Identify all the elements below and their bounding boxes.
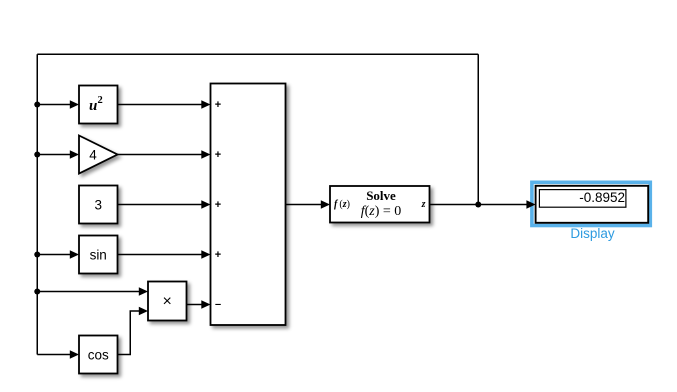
wire constant output to sum	[118, 204, 203, 206]
wire branch to u2	[37, 104, 70, 106]
block Product x	[148, 282, 187, 321]
svg-text:Display: Display	[570, 226, 615, 241]
wire branch to cos	[37, 354, 70, 356]
wire branch to product input 1	[37, 291, 139, 293]
block Gain 4	[79, 136, 118, 174]
arrowhead into display	[526, 200, 535, 208]
arrowhead into product input 1	[139, 287, 148, 295]
block Constant 3	[79, 186, 118, 224]
svg-text:-0.8952: -0.8952	[579, 190, 625, 205]
svg-text:cos: cos	[88, 348, 109, 363]
wire product output to sum	[187, 304, 203, 306]
svg-text:+: +	[215, 149, 221, 161]
wire u2 output to sum	[118, 104, 203, 106]
block Trigonometric Function cos	[79, 336, 118, 374]
wire solve output to display	[430, 204, 528, 206]
wire gain output to sum	[118, 154, 203, 156]
arrowhead into product input 2	[139, 307, 148, 315]
arrowhead into sum input 1	[201, 100, 210, 108]
svg-text:f (z): f (z)	[334, 199, 350, 210]
arrowhead into sin	[70, 250, 79, 258]
svg-text:3: 3	[94, 198, 102, 213]
junction node feedback takeoff	[475, 202, 481, 208]
junction node u2 branch	[34, 102, 40, 108]
arrowhead into solve	[321, 200, 330, 208]
arrowhead into u2	[70, 100, 79, 108]
svg-text:–: –	[215, 299, 221, 311]
wire feedback top	[37, 53, 478, 55]
wire feedback left vertical	[36, 54, 38, 354]
svg-text:z: z	[421, 199, 426, 210]
arrowhead into cos	[70, 350, 79, 358]
arrowhead into sum input 5	[201, 300, 210, 308]
arrowhead into gain	[70, 150, 79, 158]
arrowhead into sum input 4	[201, 250, 210, 258]
display block body	[536, 186, 649, 223]
wire sum output to solve	[286, 204, 322, 206]
block Math Function u^2	[79, 86, 118, 124]
svg-text:u: u	[89, 98, 97, 114]
svg-text:×: ×	[163, 293, 172, 310]
svg-text:2: 2	[98, 95, 103, 106]
wire sin output to sum	[118, 254, 203, 256]
wire cos output to product input 2	[118, 311, 140, 355]
svg-text:+: +	[215, 99, 221, 111]
arrowhead into sum input 2	[201, 150, 210, 158]
svg-text:4: 4	[89, 148, 97, 163]
junction node sin branch	[34, 252, 40, 258]
wire branch to sin	[37, 254, 70, 256]
wire branch to gain	[37, 154, 70, 156]
junction node gain branch	[34, 152, 40, 158]
svg-text:+: +	[215, 199, 221, 211]
block Sum	[211, 84, 286, 326]
block Algebraic Constraint Solve f(z)=0	[330, 186, 430, 223]
svg-text:sin: sin	[90, 248, 107, 263]
block Trigonometric Function sin	[79, 236, 118, 274]
display selection frame	[532, 182, 650, 225]
display value box	[539, 190, 626, 208]
svg-text:Solve: Solve	[366, 188, 396, 203]
svg-text:+: +	[215, 249, 221, 261]
wire feedback right vertical	[477, 54, 479, 204]
block Display (selected)	[532, 182, 650, 225]
junction node product branch	[34, 289, 40, 295]
arrowhead into sum input 3	[201, 200, 210, 208]
svg-text:f(z) = 0: f(z) = 0	[361, 204, 402, 219]
